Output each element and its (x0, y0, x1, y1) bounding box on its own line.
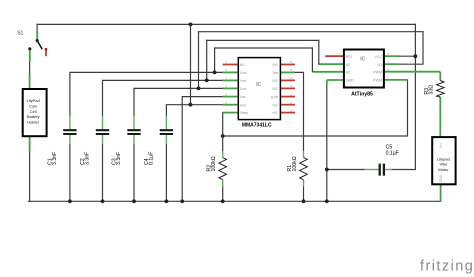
svg-text:A2: A2 (346, 71, 350, 75)
svg-text:N/C: N/C (273, 103, 279, 107)
svg-text:Sleep: Sleep (240, 111, 249, 115)
svg-text:VCC: VCC (375, 55, 383, 59)
svg-text:RST: RST (346, 55, 354, 59)
svg-text:16: 16 (289, 60, 293, 64)
svg-text:33Ω: 33Ω (429, 85, 435, 95)
svg-text:Holder: Holder (27, 119, 39, 124)
svg-text:Battery: Battery (27, 114, 40, 119)
svg-text:Vibe: Vibe (440, 162, 449, 167)
svg-text:14: 14 (289, 76, 293, 80)
svg-text:Lilypad: Lilypad (437, 156, 450, 161)
svg-text:Motor: Motor (438, 167, 449, 172)
svg-text:Xout: Xout (240, 71, 247, 75)
svg-text:MMA7341LC: MMA7341LC (242, 123, 272, 129)
svg-text:10: 10 (289, 108, 293, 112)
svg-text:11: 11 (289, 100, 292, 104)
svg-text:PWM: PWM (373, 71, 382, 75)
svg-text:Coin: Coin (29, 104, 37, 109)
svg-text:g-sel: g-sel (271, 95, 278, 99)
svg-text:0.1µF: 0.1µF (386, 150, 399, 156)
svg-text:GND: GND (346, 79, 354, 83)
svg-text:15: 15 (289, 68, 293, 72)
svg-text:GND: GND (439, 174, 443, 182)
svg-text:Test: Test (272, 71, 278, 75)
svg-text:Vcc: Vcc (439, 142, 443, 148)
svg-text:12: 12 (289, 92, 293, 96)
svg-text:IC: IC (256, 82, 261, 88)
svg-text:Yout: Yout (240, 79, 247, 83)
svg-text:Cell: Cell (30, 109, 37, 114)
svg-text:N/C: N/C (240, 63, 246, 67)
svg-text:AtTiny85: AtTiny85 (351, 92, 373, 98)
svg-text:3.3nF: 3.3nF (52, 152, 58, 165)
svg-text:N/C: N/C (273, 87, 279, 91)
svg-text:PWM: PWM (373, 79, 382, 83)
svg-text:100kΩ: 100kΩ (292, 156, 298, 171)
svg-text:13: 13 (289, 84, 293, 88)
svg-text:A1: A1 (378, 63, 382, 67)
svg-text:fritzing: fritzing (420, 259, 474, 275)
svg-text:Vdd: Vdd (240, 103, 246, 107)
svg-text:A3: A3 (346, 63, 350, 67)
svg-text:N/C: N/C (273, 63, 279, 67)
svg-text:3.3nF: 3.3nF (116, 152, 122, 165)
svg-text:Vss: Vss (240, 95, 246, 99)
svg-text:Zout: Zout (240, 87, 247, 91)
svg-text:N/C: N/C (273, 79, 279, 83)
svg-text:100kΩ: 100kΩ (211, 156, 217, 171)
svg-text:3.3nF: 3.3nF (84, 152, 90, 165)
svg-text:IC: IC (360, 57, 365, 63)
svg-text:0.1µF: 0.1µF (148, 152, 154, 165)
svg-text:LilyPad: LilyPad (27, 98, 40, 103)
svg-text:S1: S1 (17, 30, 23, 36)
svg-text:N/C: N/C (273, 111, 279, 115)
